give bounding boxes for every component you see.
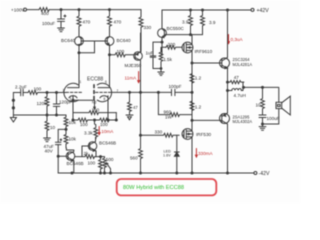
node drain/base2SC (191, 62, 193, 64)
ground (100uF) (58, 28, 65, 32)
svg-text:10: 10 (256, 103, 262, 108)
svg-text:MJL4281A: MJL4281A (233, 62, 253, 67)
resistor 100 (bias) (88, 157, 103, 173)
resistor 400 (39, 8, 49, 16)
speaker (276, 88, 290, 115)
capacitor 120pF (53, 92, 72, 117)
left cathode (69, 96, 77, 101)
svg-text:8: 8 (104, 97, 106, 101)
wire IRF9610 drain down (191, 53, 193, 121)
inductor 4.7uH (227, 81, 246, 113)
red annotation 330mA (195, 149, 197, 158)
svg-text:470: 470 (114, 20, 122, 25)
transistor Q BC640 right (105, 27, 131, 55)
cathode pot 100 (73, 96, 116, 120)
right grid (96, 91, 111, 93)
svg-text:100: 100 (34, 86, 42, 91)
svg-text:100uF: 100uF (267, 116, 280, 121)
wire BC550C emitter node (161, 41, 163, 43)
resistor 47k (grid leak) (128, 91, 139, 113)
svg-text:120k: 120k (37, 101, 48, 106)
svg-text:100: 100 (88, 161, 96, 166)
svg-text:11mA: 11mA (125, 75, 138, 80)
svg-text:80W Hybrid with ECC88: 80W Hybrid with ECC88 (123, 185, 184, 191)
resistor 3.3k (84, 120, 98, 139)
svg-text:1uF: 1uF (146, 51, 154, 56)
svg-text:1.2: 1.2 (195, 76, 202, 81)
svg-text:ECC88: ECC88 (87, 77, 103, 83)
svg-text:100: 100 (80, 122, 88, 127)
wire mirror base tie (79, 41, 107, 53)
svg-text:100pF: 100pF (169, 84, 182, 89)
svg-text:1.6V: 1.6V (163, 154, 171, 158)
mosfet IRF9610 (182, 42, 212, 54)
title box (117, 179, 217, 195)
svg-text:120pF: 120pF (59, 100, 72, 105)
trimmer 500 (101, 157, 114, 173)
svg-text:2k: 2k (84, 151, 90, 156)
node rail-470a (78, 9, 80, 11)
mosfet IRF530 (182, 129, 211, 140)
node base/3.9 (190, 34, 192, 36)
right cathode (100, 96, 108, 120)
ground (47k) arrow (126, 114, 133, 120)
svg-text:330mA: 330mA (198, 151, 213, 156)
ground (zobel) (259, 124, 266, 130)
svg-text:1.2: 1.2 (195, 104, 202, 109)
svg-text:2: 2 (63, 89, 65, 93)
node rail-470b (109, 9, 111, 11)
svg-text:560: 560 (130, 155, 138, 160)
svg-text:MJE350: MJE350 (125, 63, 142, 68)
node grid line / driver rail (191, 91, 193, 93)
wire BC546B upper base (82, 146, 90, 157)
svg-text:BC546B: BC546B (99, 140, 116, 145)
wire +42V rail (162, 9, 251, 11)
left triode envelope (64, 83, 78, 101)
svg-text:330: 330 (155, 129, 163, 134)
svg-text:2.2uF: 2.2uF (15, 85, 27, 90)
transistor 2SC3264 (220, 10, 253, 82)
svg-text:MJL4302A: MJL4302A (233, 119, 253, 124)
node +42 rail to NPN collector (227, 9, 229, 11)
svg-text:10k: 10k (69, 120, 77, 125)
resistor 560 (130, 135, 142, 173)
input terminals (12, 99, 14, 115)
resistor 3.9 (left) (182, 9, 193, 35)
svg-text:IRF9610: IRF9610 (195, 49, 213, 54)
capacitor 47uF (44, 129, 67, 173)
svg-text:1.5k: 1.5k (163, 57, 172, 62)
svg-text:40V: 40V (45, 149, 54, 154)
cathode pot wiper wire (72, 99, 97, 109)
wire anode lead right (109, 55, 111, 88)
transistor BC550C (158, 10, 185, 42)
ground (1.5k) (158, 72, 164, 75)
svg-text:6: 6 (105, 80, 107, 84)
resistor 10 (input gnd) (45, 115, 55, 138)
svg-text:100: 100 (100, 122, 108, 127)
svg-text:10k: 10k (69, 136, 77, 141)
svg-text:BC546B: BC546B (67, 161, 84, 166)
resistor 330 (top) (139, 10, 152, 33)
wire ground bus (13, 114, 66, 116)
svg-text:47: 47 (133, 105, 138, 110)
input resistor 100 (28, 86, 47, 94)
svg-text:400: 400 (41, 11, 49, 16)
resistor 100 (to MJE350 base) (110, 49, 134, 57)
resistor 1.5k (159, 47, 172, 68)
node rail-cap (60, 9, 62, 11)
wire output line (244, 86, 279, 88)
svg-text:100: 100 (117, 49, 125, 54)
left anode (68, 53, 80, 88)
+100V terminal (11, 7, 39, 12)
right anode (98, 87, 110, 89)
wire grid feed (40, 92, 66, 94)
svg-text:500: 500 (106, 157, 114, 162)
node emitter/2k/100/500 (100, 156, 102, 158)
node BC640L collector/base tie (78, 52, 80, 54)
wire +100V rail (49, 9, 141, 11)
ECC88 tube pair (64, 77, 112, 102)
svg-text:4.7uH: 4.7uH (234, 93, 246, 98)
svg-text:10mA: 10mA (101, 129, 114, 134)
resistor 1.2 (upper) (190, 74, 202, 84)
svg-text:+42V: +42V (257, 8, 270, 14)
resistor 47 (output) (228, 75, 244, 84)
wire BC550C base to 3.9 junction (165, 34, 203, 36)
svg-text:1W: 1W (165, 115, 173, 120)
bottom rail (58, 172, 254, 174)
capacitor 1uF (146, 51, 162, 69)
transistor 2SA1295 (220, 113, 253, 173)
resistor 470 (left) (77, 10, 91, 27)
node base row 2SA (191, 119, 193, 121)
resistor 2k (75, 151, 97, 159)
red annotation 11mA (138, 72, 140, 83)
svg-text:N2: N2 (92, 100, 97, 104)
wire MJE350 emitter to 560 column (140, 92, 142, 135)
svg-text:220: 220 (168, 42, 176, 47)
wire IRF530 drain up (191, 120, 193, 128)
node 100R/base (109, 54, 111, 56)
svg-text:BC640: BC640 (117, 38, 131, 43)
wire 330 to MJE350 collector (140, 33, 143, 52)
resistor 10 (zobel) (256, 88, 265, 112)
wire grid line (112, 91, 172, 93)
terminal -42V (254, 171, 270, 177)
resistor 1.2 (lower) (190, 101, 202, 111)
capacitor 100pF (169, 84, 193, 95)
cathode row resistor 100 (left) (72, 118, 93, 127)
resistor 10k (lower) (64, 129, 77, 148)
envelope dashes (93, 85, 95, 99)
resistor 330 (gate IRF530) (141, 129, 180, 137)
red annotation 10mA (98, 127, 100, 135)
svg-text:BC640: BC640 (61, 38, 75, 43)
wire base 2SC3264 (192, 62, 222, 64)
resistor 220 (166, 42, 182, 49)
right triode envelope (97, 83, 111, 101)
input ground arrow (10, 115, 16, 122)
svg-text:10: 10 (50, 125, 56, 130)
capacitor 100uF (42, 10, 66, 28)
svg-text:47: 47 (234, 75, 240, 80)
input capacitor 2.2uF (13, 85, 28, 101)
svg-text:3.9: 3.9 (209, 20, 216, 25)
svg-text:1: 1 (80, 80, 82, 84)
resistor 960 1W feedback (158, 92, 192, 119)
svg-text:BC550C: BC550C (167, 26, 185, 31)
capacitor 100uF (zobel) (259, 112, 280, 124)
svg-text:330: 330 (144, 25, 152, 30)
ground (10R) (44, 138, 51, 142)
resistor 470 (right) (108, 10, 122, 27)
svg-text:100uF: 100uF (42, 21, 55, 26)
wire IRF9610 source up (191, 35, 193, 43)
wire speaker return (263, 109, 279, 124)
wire IRF530 source down (191, 139, 193, 173)
transistor BC546B (upper) (88, 138, 116, 157)
resistor 3.9 (right) (201, 9, 216, 35)
svg-text:100: 100 (92, 107, 100, 112)
svg-text:IRF530: IRF530 (196, 132, 212, 137)
red annotation 0,3uA (228, 35, 230, 44)
svg-text:470: 470 (83, 20, 91, 25)
transistor BC546B (lower) (58, 148, 83, 173)
wire 10k chain (64, 115, 77, 129)
transistor MJE350 (125, 33, 143, 92)
LED bias diode (163, 135, 179, 173)
resistor 120k (37, 92, 49, 117)
svg-text:3.3k: 3.3k (84, 131, 93, 136)
node output (243, 86, 245, 88)
transistor Q BC640 left (61, 27, 83, 53)
svg-text:0,3uA: 0,3uA (231, 37, 244, 42)
svg-text:-42V: -42V (259, 171, 270, 177)
cathode row resistor 100 (right) (94, 113, 118, 127)
svg-text:3.9: 3.9 (182, 19, 189, 24)
pin numbers (63, 80, 119, 101)
left grid (66, 91, 81, 93)
terminal +42V (251, 8, 269, 14)
